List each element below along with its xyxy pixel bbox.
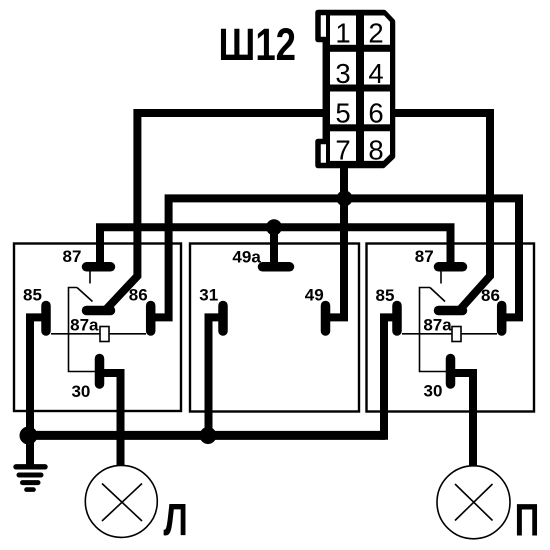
label 87a left	[70, 316, 99, 335]
wire: right 85 down to ground bus	[384, 317, 398, 439]
wire: 49a up to bus	[270, 227, 278, 267]
connector pin number 7	[335, 134, 350, 165]
terminal 31 flasher (pill)	[218, 306, 228, 332]
wire: bus linking left 86 and right 86 via pin7 node	[153, 198, 519, 317]
connector pin number 5	[335, 98, 350, 129]
right relay coil with resistor	[402, 327, 497, 342]
ground symbol	[16, 435, 45, 490]
svg-text:7: 7	[335, 134, 350, 165]
lamp Л (left turn lamp)	[85, 465, 157, 537]
label П	[515, 495, 540, 546]
label 87 left	[63, 247, 82, 266]
label 86 right	[481, 286, 500, 305]
terminal 49 flasher (pill)	[321, 306, 331, 332]
connector pin 7 cell	[328, 129, 358, 163]
wire: pins 7/8 down to flasher terminal 49	[327, 164, 344, 317]
svg-text:87а: 87а	[70, 316, 99, 335]
connector pin 2 cell	[362, 14, 392, 47]
connector pin number 6	[368, 98, 383, 129]
terminal 30 left (pill)	[95, 359, 105, 385]
svg-text:31: 31	[199, 286, 218, 305]
terminal 86 right (pill)	[497, 306, 507, 332]
label 31 flasher	[199, 286, 218, 305]
svg-text:6: 6	[368, 98, 383, 129]
flasher box	[190, 244, 359, 412]
terminal 49a flasher (pill)	[263, 262, 290, 272]
junction node: pin7 bus	[337, 190, 353, 206]
connector pin number 1	[335, 18, 350, 49]
connector pin 4 cell	[362, 50, 392, 87]
svg-text:49а: 49а	[232, 248, 261, 267]
terminal 85 right (pill)	[392, 306, 402, 332]
left relay coil with resistor	[51, 327, 146, 342]
wire: bus linking left 87, 49a and right 87	[100, 227, 451, 267]
label 85 left	[23, 286, 42, 305]
terminal 85 left (pill)	[41, 306, 51, 332]
terminal common (movable) left (pill)	[87, 306, 111, 316]
label 85 right	[376, 286, 395, 305]
connector pin number 2	[368, 18, 383, 49]
svg-text:4: 4	[368, 58, 383, 89]
left relay box	[14, 244, 181, 412]
svg-text:5: 5	[335, 98, 350, 129]
svg-text:2: 2	[368, 18, 383, 49]
svg-text:87: 87	[63, 247, 82, 266]
svg-text:49: 49	[305, 286, 324, 305]
label Л	[164, 494, 188, 545]
label 87 right	[415, 247, 434, 266]
terminal 87 right (pill)	[439, 262, 463, 272]
svg-text:87: 87	[415, 247, 434, 266]
label 87a right	[423, 315, 452, 334]
connector pin number 8	[368, 134, 383, 165]
svg-text:30: 30	[71, 382, 90, 401]
ground bus	[24, 431, 385, 440]
svg-text:Ш12: Ш12	[219, 19, 297, 70]
lamp П (right turn lamp)	[437, 466, 510, 539]
terminal common (movable) right (pill)	[439, 306, 463, 316]
wire: right 30 down to lamp П	[454, 373, 473, 470]
right relay internal contact linkage	[420, 272, 447, 372]
svg-text:85: 85	[376, 286, 395, 305]
label 49 flasher	[305, 286, 324, 305]
label 30 left	[71, 382, 90, 401]
label Ш12	[219, 19, 297, 70]
terminal 30 right (pill)	[446, 359, 456, 385]
right relay box	[367, 244, 535, 412]
wire: flasher 31 down to ground bus	[209, 317, 223, 436]
wire: pin 5 to left relay movable contact	[106, 113, 326, 310]
svg-text:86: 86	[129, 286, 148, 305]
terminal 87 left (pill)	[87, 262, 111, 272]
connector pin 6 cell	[362, 90, 392, 127]
connector pin 1 cell	[328, 14, 358, 47]
connector pin number 4	[368, 58, 383, 89]
connector pin 3 cell	[328, 50, 358, 87]
svg-text:П: П	[515, 495, 540, 546]
terminal 86 left (pill)	[146, 306, 156, 332]
left relay internal contact linkage	[69, 272, 96, 372]
connector pin 5 cell	[328, 90, 358, 127]
junction node: 49a bus	[266, 219, 282, 235]
connector pin number 3	[335, 58, 350, 89]
svg-text:30: 30	[424, 382, 443, 401]
connector Ш12 housing	[318, 13, 393, 166]
label 86 left	[129, 286, 148, 305]
svg-text:87а: 87а	[423, 315, 452, 334]
label 30 right	[424, 382, 443, 401]
wire: left 30 down to lamp Л	[102, 373, 121, 470]
connector pin 8 cell	[362, 129, 392, 163]
wire: pin 6 to right relay movable contact	[392, 113, 490, 310]
svg-text:Л: Л	[164, 494, 188, 545]
junction node: ground at 31	[200, 427, 217, 444]
svg-text:86: 86	[481, 286, 500, 305]
junction node: ground at left 85	[20, 427, 38, 445]
svg-text:1: 1	[335, 18, 350, 49]
svg-text:85: 85	[23, 286, 42, 305]
wire: left 85 down to ground bus	[30, 317, 47, 436]
svg-text:3: 3	[335, 58, 350, 89]
label 49a flasher	[232, 248, 261, 267]
svg-text:8: 8	[368, 134, 383, 165]
